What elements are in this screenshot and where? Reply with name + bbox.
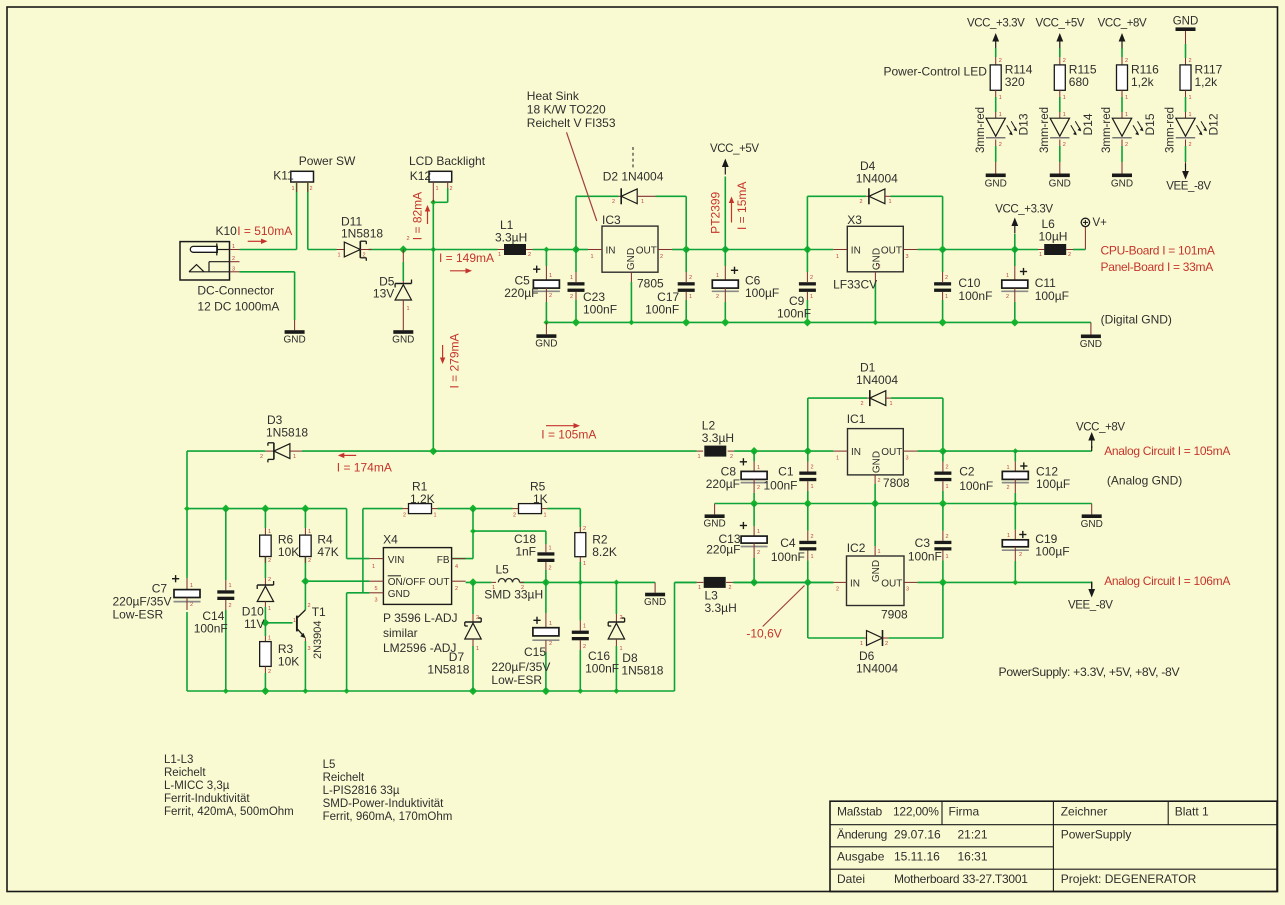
svg-text:1: 1 <box>1007 465 1010 471</box>
svg-text:220µF/35V: 220µF/35V <box>113 595 172 609</box>
wire C17 vertical <box>685 250 687 273</box>
svg-text:2: 2 <box>363 253 366 259</box>
diode D4 1N4004 <box>866 195 869 197</box>
wire D3 to node <box>302 450 433 452</box>
svg-text:29.07.16: 29.07.16 <box>894 828 941 842</box>
svg-text:1: 1 <box>1006 273 1009 279</box>
node FB line junction <box>470 528 476 534</box>
svg-text:1: 1 <box>810 294 813 300</box>
svg-text:5: 5 <box>375 586 378 592</box>
wire neg rail <box>675 581 697 583</box>
wire C19 down <box>1014 504 1016 530</box>
svg-text:IN: IN <box>606 246 616 257</box>
svg-text:100nF: 100nF <box>645 303 679 317</box>
svg-text:Reichelt V FI353: Reichelt V FI353 <box>527 116 616 130</box>
svg-text:(Analog GND): (Analog GND) <box>1107 474 1182 488</box>
title block <box>830 801 1277 891</box>
svg-text:1: 1 <box>338 253 341 259</box>
svg-text:I = 15mA: I = 15mA <box>735 182 749 230</box>
svg-text:2: 2 <box>836 587 839 593</box>
svg-text:2: 2 <box>757 550 760 556</box>
svg-text:1: 1 <box>591 254 594 260</box>
svg-text:2: 2 <box>1063 58 1066 64</box>
wire D15 down <box>1121 140 1123 147</box>
svg-text:L-PIS2816 33µ: L-PIS2816 33µ <box>323 785 400 797</box>
wire D8 vertical <box>615 582 617 614</box>
terminal V+ <box>1081 218 1089 226</box>
wire C2 vertical <box>942 451 944 461</box>
svg-text:2: 2 <box>229 603 232 609</box>
svg-text:1: 1 <box>999 112 1002 118</box>
svg-text:D15: D15 <box>1143 113 1157 135</box>
svg-text:Maßstab: Maßstab <box>837 805 883 819</box>
wire neg rail to VEE <box>1091 582 1093 588</box>
wire D13 down <box>995 140 997 147</box>
svg-text:2: 2 <box>729 585 732 591</box>
svg-text:2: 2 <box>1189 58 1192 64</box>
svg-text:OUT: OUT <box>428 577 449 588</box>
capacitor C9 100nF <box>806 272 808 282</box>
regulator IC1 7808 <box>848 429 904 475</box>
wire K12 node to L1 <box>433 249 497 251</box>
wire K11 pin1 down <box>296 183 298 250</box>
svg-text:1: 1 <box>811 484 814 490</box>
wire C23 vertical <box>575 250 577 273</box>
svg-text:Zeichner: Zeichner <box>1061 805 1108 819</box>
capacitor C13 220uF <box>753 526 755 536</box>
svg-text:Datei: Datei <box>837 872 865 886</box>
svg-text:7808: 7808 <box>883 476 910 490</box>
svg-text:1: 1 <box>698 454 701 460</box>
ground C5 <box>545 322 547 334</box>
wire rail end VCC+8V <box>1015 450 1091 452</box>
svg-text:Ausgabe: Ausgabe <box>837 850 885 864</box>
transistor T1 2N3904 <box>296 616 298 632</box>
wire node to C6 node <box>686 249 725 251</box>
ground LED D13 <box>986 174 1006 178</box>
capacitor C2 100nF <box>942 462 944 472</box>
svg-text:1: 1 <box>292 186 295 192</box>
wire C3 vertical <box>942 504 944 531</box>
svg-text:1: 1 <box>716 273 719 279</box>
regulator X4 P3596 <box>383 548 451 605</box>
diode D5 13V zener <box>402 250 404 263</box>
svg-text:220µF: 220µF <box>706 543 740 557</box>
regulator IC3 7805 <box>602 226 658 272</box>
svg-text:1N4004: 1N4004 <box>856 171 898 185</box>
svg-text:I = 82mA: I = 82mA <box>411 192 425 240</box>
svg-text:2: 2 <box>310 186 313 192</box>
svg-text:100nF: 100nF <box>194 622 228 636</box>
capacitor C11 100uF <box>1014 266 1016 280</box>
diode D7 1N5818 <box>472 614 474 622</box>
wire IC3 OUT to node <box>672 249 686 251</box>
wire L3 to IC2 <box>733 581 833 583</box>
svg-text:2: 2 <box>1006 294 1009 300</box>
svg-text:IN: IN <box>851 447 861 458</box>
svg-text:100µF: 100µF <box>1035 289 1069 303</box>
svg-text:OUT: OUT <box>636 246 657 257</box>
svg-text:LF33CV: LF33CV <box>833 278 877 292</box>
connector K12 LCD Backlight <box>429 171 452 182</box>
svg-text:3: 3 <box>308 646 311 652</box>
wire L2 to IC1 IN <box>734 450 833 452</box>
svg-text:VEE_-8V: VEE_-8V <box>1166 181 1211 193</box>
svg-text:Analog Circuit I = 106mA: Analog Circuit I = 106mA <box>1104 574 1230 588</box>
wire GND pin down to bottom rail <box>346 593 348 691</box>
svg-text:1N4004: 1N4004 <box>856 373 898 387</box>
svg-text:Projekt: DEGENERATOR: Projekt: DEGENERATOR <box>1061 872 1197 886</box>
svg-text:2: 2 <box>308 603 311 609</box>
svg-text:FB: FB <box>437 555 450 566</box>
wire R115 to D14 <box>1059 90 1061 97</box>
resistor R116 1,2k <box>1117 65 1128 90</box>
svg-text:GND: GND <box>871 560 882 582</box>
svg-text:IC3: IC3 <box>602 213 621 227</box>
svg-text:3: 3 <box>906 587 909 593</box>
svg-text:2: 2 <box>860 199 863 205</box>
svg-text:1: 1 <box>1125 112 1128 118</box>
svg-text:OUT: OUT <box>881 246 902 257</box>
svg-text:2: 2 <box>268 558 271 564</box>
inductor L6 10uH <box>1038 249 1044 251</box>
connector K10 DC jack <box>180 242 230 280</box>
svg-text:K10: K10 <box>216 224 238 238</box>
svg-text:220µF: 220µF <box>504 286 538 300</box>
svg-text:2: 2 <box>583 526 586 532</box>
svg-text:1: 1 <box>549 546 552 552</box>
svg-text:2: 2 <box>583 644 586 650</box>
svg-text:GND: GND <box>388 589 410 600</box>
svg-text:C3: C3 <box>915 536 931 550</box>
wire D11 to node <box>369 249 404 251</box>
svg-text:2: 2 <box>999 58 1002 64</box>
capacitor C7 220uF/35V <box>186 578 188 590</box>
capacitor C23 100nF <box>575 272 577 282</box>
svg-text:K11: K11 <box>273 169 294 183</box>
svg-text:Reichelt: Reichelt <box>323 772 365 784</box>
node C12 junction <box>1012 448 1018 454</box>
wire left drop <box>186 451 188 578</box>
wire IC2 GND up <box>874 504 876 547</box>
svg-text:T1: T1 <box>312 605 326 619</box>
svg-text:GND: GND <box>985 179 1007 190</box>
wire D10 to base junction <box>264 607 266 623</box>
svg-text:1: 1 <box>946 554 949 560</box>
wire C4 vertical <box>807 504 809 531</box>
svg-text:1: 1 <box>434 513 437 519</box>
thermal dashed line D2 <box>632 147 634 170</box>
wire digital gnd rail <box>546 321 1091 323</box>
svg-text:1: 1 <box>293 618 296 624</box>
svg-text:K12: K12 <box>410 169 432 183</box>
svg-text:3.3µH: 3.3µH <box>702 431 734 445</box>
wire IC1 GND down <box>874 484 876 504</box>
svg-text:1: 1 <box>407 306 410 312</box>
wire C9 vertical <box>806 250 808 273</box>
ground D5 <box>402 320 404 330</box>
svg-text:1: 1 <box>811 554 814 560</box>
diode D11 1N5818 <box>337 249 344 251</box>
svg-text:3: 3 <box>375 598 378 604</box>
svg-text:VIN: VIN <box>388 555 405 566</box>
svg-text:OUT: OUT <box>881 579 902 590</box>
svg-text:3.3µH: 3.3µH <box>705 601 737 615</box>
svg-text:GND: GND <box>1049 179 1071 190</box>
svg-text:2: 2 <box>757 485 760 491</box>
svg-text:10µH: 10µH <box>1039 229 1068 243</box>
LED D12 3mm-red <box>1176 118 1195 136</box>
svg-text:2: 2 <box>528 252 531 258</box>
diode D1 1N4004 <box>867 397 870 399</box>
capacitor C6 100uF <box>724 266 726 280</box>
svg-text:3: 3 <box>906 254 909 260</box>
svg-text:2: 2 <box>620 615 623 621</box>
svg-text:2: 2 <box>260 454 263 460</box>
svg-text:Ferrit, 960mA, 170mOhm: Ferrit, 960mA, 170mOhm <box>323 811 453 823</box>
svg-text:Heat Sink: Heat Sink <box>527 89 580 103</box>
diode D6 1N4004 <box>865 637 867 639</box>
wire FB drop <box>472 509 474 559</box>
svg-text:1: 1 <box>268 529 271 535</box>
svg-text:2: 2 <box>878 478 881 484</box>
svg-text:2: 2 <box>689 275 692 281</box>
svg-text:1: 1 <box>293 454 296 460</box>
svg-text:2: 2 <box>1125 142 1128 148</box>
wire R116 to D15 <box>1121 90 1123 97</box>
node D1 C1 junction <box>804 447 812 455</box>
connector K11 Power SW <box>291 171 314 182</box>
wire X4 top rail <box>187 508 347 510</box>
svg-text:13V: 13V <box>373 287 394 301</box>
svg-text:D12: D12 <box>1207 113 1221 135</box>
capacitor C16 100nF <box>579 621 581 631</box>
wire L1 to C5 node <box>533 249 577 251</box>
power flag VEE_-8V <box>1088 589 1095 598</box>
wire K12 pin1 down <box>432 202 434 249</box>
svg-text:GND: GND <box>1081 519 1103 530</box>
inductor L5 SMD 33uH <box>491 581 496 583</box>
svg-text:220µF: 220µF <box>706 477 740 491</box>
svg-text:1: 1 <box>689 294 692 300</box>
svg-text:SMD-Power-Induktivität: SMD-Power-Induktivität <box>323 798 445 810</box>
svg-text:GND: GND <box>1080 339 1102 350</box>
svg-text:1: 1 <box>999 95 1002 101</box>
wire R2 bottom <box>579 562 581 582</box>
svg-text:320: 320 <box>1005 75 1025 89</box>
svg-text:LCD Backlight: LCD Backlight <box>409 154 486 168</box>
svg-text:I = 105mA: I = 105mA <box>541 428 596 442</box>
svg-text:1: 1 <box>583 561 586 567</box>
svg-text:1: 1 <box>945 294 948 300</box>
svg-text:IC2: IC2 <box>847 541 866 555</box>
wire L6 to V+ <box>1073 249 1085 251</box>
svg-text:2: 2 <box>946 465 949 471</box>
svg-text:OUT: OUT <box>881 447 902 458</box>
wire DC pin3 to GND <box>240 271 295 273</box>
svg-text:2: 2 <box>810 275 813 281</box>
ground DC <box>294 320 296 330</box>
svg-text:I = 510mA: I = 510mA <box>237 224 292 238</box>
LED D15 3mm-red <box>1112 118 1131 136</box>
label -10.6V <box>763 586 805 627</box>
svg-text:1N5818: 1N5818 <box>266 425 308 439</box>
svg-text:1: 1 <box>544 513 547 519</box>
svg-text:2: 2 <box>1063 142 1066 148</box>
svg-text:2: 2 <box>1068 252 1071 258</box>
svg-text:C10: C10 <box>958 276 980 290</box>
svg-text:2: 2 <box>513 513 516 519</box>
svg-text:100nF: 100nF <box>958 289 992 303</box>
svg-text:L5: L5 <box>496 563 510 577</box>
wire R3 chain <box>264 623 266 636</box>
wire neg column up <box>674 582 676 691</box>
power flag VEE_-8V top section <box>1185 162 1187 166</box>
node D4 loop left junction <box>803 245 811 253</box>
svg-text:1N5818: 1N5818 <box>427 663 469 677</box>
capacitor C1 100nF <box>807 462 809 472</box>
svg-text:220µF/35V: 220µF/35V <box>491 660 550 674</box>
svg-text:I = 279mA: I = 279mA <box>447 333 461 388</box>
wire R117 to D12 <box>1185 90 1187 97</box>
svg-text:3mm-red: 3mm-red <box>975 107 987 153</box>
svg-text:GND: GND <box>644 597 666 608</box>
wire emitter down <box>304 641 306 691</box>
LED D13 3mm-red <box>986 118 1005 136</box>
svg-text:IN: IN <box>850 579 860 590</box>
svg-text:VEE_-8V: VEE_-8V <box>1068 600 1113 612</box>
svg-text:Power-Control LED: Power-Control LED <box>884 65 988 79</box>
svg-text:7805: 7805 <box>637 277 664 291</box>
svg-text:C7: C7 <box>152 582 168 596</box>
svg-text:V+: V+ <box>1093 217 1108 229</box>
wire D12 down <box>1185 140 1187 147</box>
node FB junction <box>469 505 477 513</box>
resistor R5 1K <box>513 508 519 510</box>
resistor R6 10K <box>264 528 266 535</box>
svg-text:Ferrit, 420mA, 500mOhm: Ferrit, 420mA, 500mOhm <box>164 806 294 818</box>
svg-text:Firma: Firma <box>949 805 980 819</box>
svg-text:GND: GND <box>871 248 882 270</box>
svg-text:2: 2 <box>308 558 311 564</box>
node X4 rail junctions <box>184 506 190 512</box>
svg-text:18 K/W TO220: 18 K/W TO220 <box>527 103 606 117</box>
svg-text:3: 3 <box>232 267 235 273</box>
node neg rail junctions <box>750 578 758 586</box>
svg-text:2N3904: 2N3904 <box>312 620 324 659</box>
regulator IC2 7908 <box>847 556 905 606</box>
svg-text:L5: L5 <box>323 759 336 771</box>
svg-text:-10,6V: -10,6V <box>746 627 781 641</box>
wire VCC_+5V flag down <box>724 177 726 250</box>
svg-text:Blatt 1: Blatt 1 <box>1175 805 1209 819</box>
wire R1 to R5 <box>438 508 513 510</box>
wire VCC_+3.3V flag down <box>1014 234 1016 250</box>
svg-text:ON/OFF: ON/OFF <box>388 577 426 588</box>
svg-text:1: 1 <box>549 621 552 627</box>
svg-text:2: 2 <box>811 534 814 540</box>
svg-text:D2 1N4004: D2 1N4004 <box>603 170 664 184</box>
node K12 pin junction <box>430 199 436 205</box>
svg-text:DC-Connector: DC-Connector <box>197 284 274 298</box>
svg-text:2: 2 <box>450 186 453 192</box>
wire C14 vertical <box>225 509 227 581</box>
svg-text:GND: GND <box>1111 179 1133 190</box>
wire K11 to D11 <box>308 249 337 251</box>
svg-text:similar: similar <box>383 626 418 640</box>
ground digital rail <box>1090 322 1092 334</box>
svg-text:1.2K: 1.2K <box>410 492 435 506</box>
wire FB line to C18 <box>473 530 546 532</box>
capacitor C14 100nF <box>225 580 227 590</box>
svg-text:1: 1 <box>570 275 573 281</box>
svg-text:1: 1 <box>476 646 479 652</box>
wire C8 down <box>753 451 755 461</box>
svg-text:3mm-red: 3mm-red <box>1165 107 1177 153</box>
svg-text:VCC_+3.3V: VCC_+3.3V <box>967 18 1025 30</box>
svg-text:10K: 10K <box>278 545 299 559</box>
svg-text:CPU-Board I = 101mA: CPU-Board I = 101mA <box>1101 244 1215 258</box>
svg-text:1: 1 <box>890 401 893 407</box>
resistor R115 680 <box>1054 65 1065 90</box>
svg-text:3mm-red: 3mm-red <box>1039 107 1051 153</box>
svg-text:47K: 47K <box>317 545 338 559</box>
svg-text:8.2K: 8.2K <box>592 545 617 559</box>
svg-text:Low-ESR: Low-ESR <box>491 673 542 687</box>
capacitor C12 100uF <box>1014 461 1016 471</box>
wire C6 node to X3 IN <box>725 249 833 251</box>
svg-text:2: 2 <box>549 566 552 572</box>
node IC1 out junction <box>939 447 947 455</box>
wire base line <box>265 622 292 624</box>
wire D6 loop <box>807 582 809 638</box>
capacitor C15 220uF/35V <box>545 613 547 628</box>
svg-text:Ferrit-Induktivität: Ferrit-Induktivität <box>164 793 250 805</box>
svg-text:100nF: 100nF <box>583 303 617 317</box>
node D5 junction <box>399 245 407 253</box>
svg-text:2: 2 <box>946 534 949 540</box>
svg-text:GND: GND <box>392 335 414 346</box>
svg-text:3.3µH: 3.3µH <box>495 230 527 244</box>
node C8 junction <box>750 447 758 455</box>
diode D8 1N5818 <box>615 614 617 622</box>
capacitor C8 220uF <box>753 461 755 471</box>
svg-text:1: 1 <box>268 636 271 642</box>
svg-text:100µF: 100µF <box>1035 545 1069 559</box>
svg-text:GND: GND <box>283 335 305 346</box>
svg-text:10K: 10K <box>278 655 299 669</box>
svg-text:1: 1 <box>232 244 235 250</box>
node out rail junctions <box>469 578 477 586</box>
svg-text:3: 3 <box>906 456 909 462</box>
svg-text:2: 2 <box>549 293 552 299</box>
svg-text:1N5818: 1N5818 <box>341 227 383 241</box>
svg-text:VCC_+3.3V: VCC_+3.3V <box>995 204 1053 216</box>
svg-text:Änderung: Änderung <box>837 828 887 842</box>
svg-text:11V: 11V <box>244 617 264 631</box>
svg-text:VCC_+5V: VCC_+5V <box>1035 18 1084 30</box>
svg-text:1: 1 <box>1007 533 1010 539</box>
inductor L3 3.3uH <box>697 581 704 583</box>
svg-text:2: 2 <box>190 602 193 608</box>
diode D10 11V zener <box>264 578 266 585</box>
ground LED D15 <box>1112 174 1132 178</box>
svg-text:1: 1 <box>1039 252 1042 258</box>
svg-text:2: 2 <box>570 294 573 300</box>
svg-text:Low-ESR: Low-ESR <box>113 608 164 622</box>
wire R114 to D13 <box>995 90 997 97</box>
node C5 junction <box>544 247 550 253</box>
